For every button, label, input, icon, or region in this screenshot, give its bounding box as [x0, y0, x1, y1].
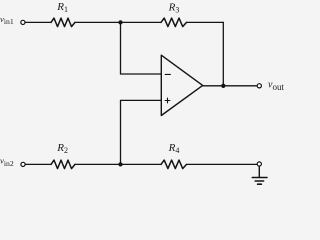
op-amp U1 triangle: [161, 55, 202, 115]
ground: [252, 166, 267, 184]
resistor R1: [51, 18, 75, 27]
resistor R2: [51, 160, 75, 169]
resistor R4: [161, 160, 187, 169]
wire node A down to inverting input: [121, 22, 162, 74]
wire R2 to node C: [75, 163, 121, 165]
wire node C up to non-inverting input: [121, 100, 162, 164]
wire vin2 to R2: [25, 163, 51, 165]
output terminal vout: [257, 84, 261, 88]
wire R1 to node A: [75, 21, 121, 23]
wire vin1 to R1: [25, 21, 51, 23]
input terminal vin2: [21, 162, 25, 166]
wire node A to R3: [121, 21, 162, 23]
wire R3 to feedback corner: [187, 21, 224, 23]
op-amp U1 inverting input marker: [165, 73, 170, 75]
wire node C to R4: [121, 163, 162, 165]
svg-text:vin2: vin2: [0, 156, 14, 168]
wire op-amp output to vout terminal: [203, 85, 257, 87]
node A junction dot: [118, 20, 122, 24]
node B output junction dot: [221, 84, 225, 88]
svg-text:R1: R1: [56, 1, 68, 14]
svg-text:R3: R3: [168, 2, 180, 15]
input terminal vin1: [21, 20, 25, 24]
resistor R3: [161, 18, 187, 27]
svg-text:R4: R4: [168, 142, 180, 155]
svg-text:vout: vout: [268, 80, 284, 92]
svg-text:vin1: vin1: [0, 14, 14, 26]
wire feedback vertical to output node: [222, 22, 224, 85]
ground terminal circle: [257, 162, 261, 166]
wire R4 to ground: [187, 163, 258, 165]
svg-text:R2: R2: [56, 142, 68, 155]
node C junction dot: [118, 162, 122, 166]
op-amp U1 non-inverting input marker: [165, 98, 170, 103]
